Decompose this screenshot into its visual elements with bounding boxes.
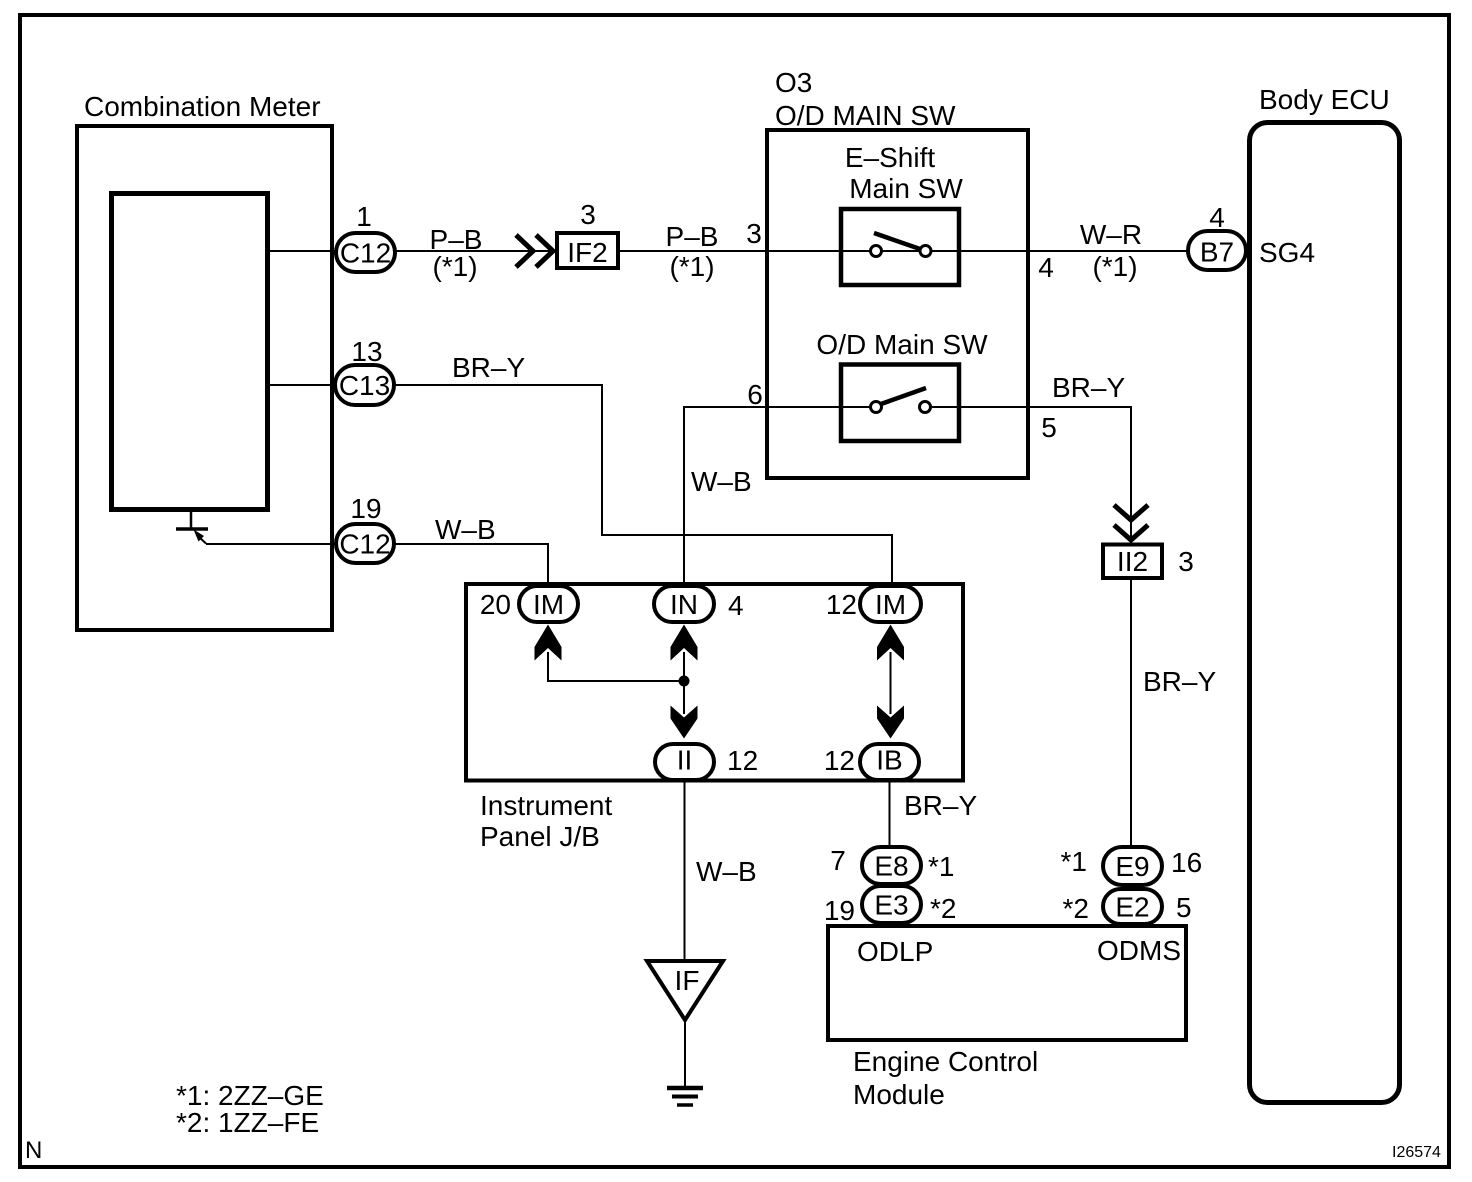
wire BR-Y from C13 pin 13 to IM pin 12 of J/B bbox=[268, 385, 892, 590]
splice chevrons on P-B wire before IF2 bbox=[516, 235, 553, 267]
svg-text:*1: *1 bbox=[928, 851, 954, 882]
down arrow above IB pin 12 bbox=[877, 706, 904, 739]
svg-text:7: 7 bbox=[830, 845, 846, 876]
svg-text:*1: *1 bbox=[1061, 846, 1087, 877]
connector C13 pin 13 oval bbox=[335, 365, 394, 405]
svg-text:5: 5 bbox=[1041, 412, 1057, 443]
svg-text:E–Shift: E–Shift bbox=[845, 142, 935, 173]
svg-text:20: 20 bbox=[480, 589, 511, 620]
svg-text:3: 3 bbox=[1178, 546, 1194, 577]
svg-text:W–B: W–B bbox=[696, 856, 757, 887]
svg-text:(*1): (*1) bbox=[432, 251, 477, 282]
junction dot inside J/B bbox=[679, 676, 690, 687]
connector E3 pin 19 oval bbox=[862, 886, 921, 923]
O/D MAIN SW assembly box O3 bbox=[767, 130, 1028, 478]
svg-text:16: 16 bbox=[1171, 847, 1202, 878]
svg-text:E2: E2 bbox=[1115, 892, 1149, 923]
wire W-B node down to IN pin 4 and O/D Main SW pin 6 bbox=[684, 407, 869, 590]
svg-text:IM: IM bbox=[533, 589, 564, 620]
up arrow below IN pin 4 bbox=[671, 625, 698, 661]
connector IN pin 4 oval bbox=[654, 586, 714, 622]
wire inside J/B from IN arrow through junction to II arrow bbox=[683, 652, 685, 714]
connector IB pin 12 oval bbox=[860, 744, 919, 780]
E-Shift Main SW switch box bbox=[841, 209, 959, 285]
svg-text:19: 19 bbox=[824, 895, 855, 926]
svg-text:4: 4 bbox=[1038, 252, 1054, 283]
svg-text:II2: II2 bbox=[1117, 546, 1148, 577]
body ECU box bbox=[1250, 123, 1400, 1103]
connector II pin 12 oval bbox=[655, 744, 714, 780]
svg-text:(*1): (*1) bbox=[669, 251, 714, 282]
connector E8 pin 7 oval bbox=[862, 847, 921, 884]
svg-text:12: 12 bbox=[824, 745, 855, 776]
connector E9 pin 16 oval bbox=[1103, 847, 1162, 885]
svg-text:IN: IN bbox=[670, 589, 698, 620]
svg-text:(*1): (*1) bbox=[1092, 251, 1137, 282]
svg-text:E9: E9 bbox=[1115, 851, 1149, 882]
down arrow above II pin 12 bbox=[671, 706, 698, 739]
svg-text:3: 3 bbox=[580, 199, 596, 230]
wire from IF triangle apex to ground symbol bbox=[684, 1018, 686, 1086]
svg-text:12: 12 bbox=[826, 589, 857, 620]
connector C12 pin 1 oval bbox=[336, 233, 395, 272]
svg-text:4: 4 bbox=[728, 590, 744, 621]
E-Shift Main SW contact circles bbox=[871, 246, 882, 257]
svg-text:13: 13 bbox=[351, 336, 382, 367]
svg-text:E3: E3 bbox=[874, 890, 908, 921]
svg-text:19: 19 bbox=[350, 493, 381, 524]
svg-text:Instrument: Instrument bbox=[480, 790, 612, 821]
O/D Main SW contact circles bbox=[871, 402, 882, 413]
svg-text:*2: *2 bbox=[1063, 893, 1089, 924]
svg-text:*2: 1ZZ–FE: *2: 1ZZ–FE bbox=[176, 1107, 319, 1138]
svg-text:C12: C12 bbox=[340, 238, 391, 269]
up arrow below IM pin 12 bbox=[877, 625, 904, 661]
ground triangle IF bbox=[647, 961, 723, 1020]
connector IF2 box bbox=[557, 233, 618, 268]
svg-text:5: 5 bbox=[1176, 892, 1192, 923]
svg-text:IM: IM bbox=[875, 589, 906, 620]
svg-text:12: 12 bbox=[727, 745, 758, 776]
svg-text:B7: B7 bbox=[1200, 237, 1234, 268]
connector C12 pin 19 oval bbox=[336, 524, 394, 563]
svg-text:C12: C12 bbox=[339, 529, 390, 560]
svg-text:II: II bbox=[677, 745, 693, 776]
svg-text:1: 1 bbox=[356, 201, 372, 232]
connector II2 box bbox=[1103, 545, 1162, 579]
svg-text:O/D MAIN SW: O/D MAIN SW bbox=[775, 100, 956, 131]
svg-text:I26574: I26574 bbox=[1392, 1144, 1441, 1161]
O/D Main SW switch box bbox=[841, 365, 959, 442]
svg-text:C13: C13 bbox=[339, 370, 390, 401]
svg-text:SG4: SG4 bbox=[1259, 237, 1315, 268]
svg-text:Body ECU: Body ECU bbox=[1259, 84, 1390, 115]
svg-text:IB: IB bbox=[876, 745, 902, 776]
wire W-B from meter ground via C12 pin 19 to IM pin 20 of J/B bbox=[206, 544, 548, 590]
combination meter inner unit bbox=[112, 194, 268, 510]
wire BR-Y from O/D Main SW pin 5 through II2 down to E9/E2 bbox=[932, 407, 1131, 847]
svg-text:Engine Control: Engine Control bbox=[853, 1046, 1038, 1077]
splice chevrons on BR-Y wire above II2 bbox=[1114, 505, 1148, 540]
combination meter box bbox=[77, 126, 332, 630]
wire inside J/B from IM20 arrow to junction bbox=[548, 652, 684, 681]
svg-text:Main SW: Main SW bbox=[849, 173, 963, 204]
E-Shift Main SW blade bbox=[874, 233, 920, 249]
wire BR-Y from IB pin 12 down to E8 bbox=[889, 780, 891, 849]
ground tick of combination meter inner unit bbox=[176, 512, 208, 544]
connector E2 pin 5 oval bbox=[1103, 889, 1162, 924]
svg-text:Combination Meter: Combination Meter bbox=[84, 91, 321, 122]
ground arrow head pointing to tick bbox=[194, 530, 205, 542]
connector IM pin 20 oval bbox=[519, 586, 578, 622]
wire W-B from II pin 12 down to IF ground triangle bbox=[684, 780, 686, 963]
svg-text:IF: IF bbox=[675, 965, 700, 996]
instrument panel J/B box bbox=[466, 584, 963, 781]
wire P-B from combination meter pin 1 through IF2 to B7 (node y=251) bbox=[268, 250, 1188, 252]
svg-text:BR–Y: BR–Y bbox=[904, 790, 977, 821]
svg-text:BR–Y: BR–Y bbox=[452, 352, 525, 383]
svg-text:P–B: P–B bbox=[666, 221, 719, 252]
ground symbol bars bbox=[667, 1088, 703, 1105]
engine control module box bbox=[828, 926, 1186, 1040]
svg-text:Module: Module bbox=[853, 1079, 945, 1110]
up arrow below IM pin 20 bbox=[535, 625, 562, 661]
svg-text:6: 6 bbox=[747, 379, 763, 410]
svg-text:Panel J/B: Panel J/B bbox=[480, 821, 600, 852]
svg-text:BR–Y: BR–Y bbox=[1143, 666, 1216, 697]
connector IM pin 12 oval bbox=[860, 586, 921, 622]
svg-text:*2: *2 bbox=[930, 893, 956, 924]
svg-text:W–B: W–B bbox=[691, 466, 752, 497]
svg-text:ODMS: ODMS bbox=[1097, 935, 1181, 966]
svg-text:W–R: W–R bbox=[1080, 219, 1142, 250]
connector B7 oval bbox=[1188, 231, 1246, 270]
svg-text:O3: O3 bbox=[775, 67, 812, 98]
svg-text:N: N bbox=[25, 1137, 42, 1164]
svg-text:IF2: IF2 bbox=[567, 237, 607, 268]
svg-text:O/D Main SW: O/D Main SW bbox=[816, 329, 988, 360]
O/D Main SW blade bbox=[881, 388, 926, 404]
svg-text:W–B: W–B bbox=[435, 514, 496, 545]
svg-text:3: 3 bbox=[746, 218, 762, 249]
svg-text:ODLP: ODLP bbox=[857, 936, 933, 967]
svg-text:BR–Y: BR–Y bbox=[1052, 372, 1125, 403]
svg-text:4: 4 bbox=[1209, 202, 1225, 233]
svg-text:E8: E8 bbox=[874, 851, 908, 882]
wire inside J/B from IM12 arrow to IB arrow bbox=[890, 652, 892, 714]
